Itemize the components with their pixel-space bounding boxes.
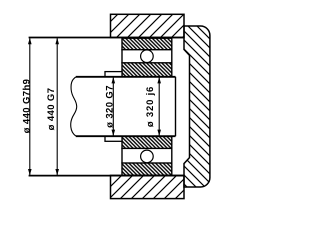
svg-text:ø 440 G7h9: ø 440 G7h9	[21, 79, 32, 134]
svg-text:ø 320 G7: ø 320 G7	[105, 85, 116, 128]
svg-text:ø 320 j6: ø 320 j6	[145, 86, 156, 127]
svg-text:ø 440 G7: ø 440 G7	[46, 88, 57, 131]
